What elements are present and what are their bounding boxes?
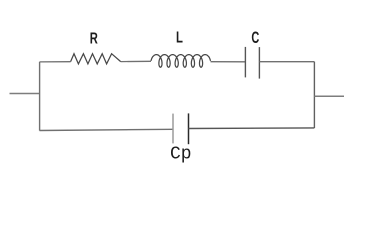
resistor R: [71, 54, 121, 64]
bottom wire left to Cp: [40, 129, 174, 130]
svg-text:Cp: Cp: [170, 145, 192, 165]
wire Cp to right vertical: [189, 127, 315, 130]
left vertical wire: [39, 62, 41, 131]
capacitor C right plate: [258, 47, 260, 79]
inductor L: [151, 55, 211, 68]
right vertical wire: [313, 62, 315, 128]
left terminal stub: [10, 93, 41, 95]
wire inductor to capacitor C: [211, 61, 246, 63]
wire resistor to inductor: [121, 60, 151, 62]
right terminal stub: [314, 95, 344, 97]
capacitor C left plate: [244, 47, 246, 78]
svg-text:R: R: [90, 31, 98, 48]
capacitor Cp left plate: [172, 114, 174, 144]
capacitor Cp right plate: [188, 113, 190, 144]
svg-text:L: L: [176, 29, 183, 46]
wire capacitor C to right vertical: [259, 61, 314, 63]
svg-text:C: C: [251, 29, 259, 47]
wire top-left to resistor: [40, 61, 71, 63]
